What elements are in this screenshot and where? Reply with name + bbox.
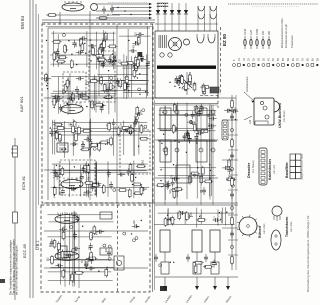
svg-text:1W: 1W [261, 31, 265, 35]
svg-text:0,25: 0,25 [249, 29, 253, 35]
svg-text:Kondensatoren in pF: Kondensatoren in pF [284, 24, 288, 48]
svg-text:0,5W: 0,5W [255, 28, 259, 35]
svg-text:1M: 1M [170, 190, 172, 193]
svg-text:U B 1: U B 1 [36, 241, 40, 251]
svg-text:von hinten: von hinten [283, 110, 286, 122]
svg-text:Toleranzen: Toleranzen [290, 35, 294, 48]
svg-text:von unten: von unten [263, 223, 266, 234]
svg-text:Beschaltung des Vierwindungsko: Beschaltung des Vierwindungskopplers „W5… [306, 215, 310, 292]
svg-text:ECC 85: ECC 85 [22, 243, 27, 258]
svg-text:Röhren: Röhren [258, 226, 262, 238]
svg-text:Widerstandswerte in Ohm: Widerstandswerte in Ohm [280, 18, 284, 48]
svg-text:Bandfilter: Bandfilter [285, 161, 289, 178]
svg-text:UKW-Buchsen: UKW-Buchsen [278, 103, 282, 128]
svg-text:Allegro 62 GF/GT Ausf.: Allegro 62 GF/GT Ausf. [300, 153, 304, 180]
svg-text:von unten: von unten [290, 221, 293, 232]
svg-text:EM 84: EM 84 [20, 15, 25, 29]
svg-text:Decoder: Decoder [247, 162, 251, 178]
svg-text:Transistoren: Transistoren [285, 217, 289, 237]
svg-text:AM: AM [248, 120, 252, 124]
svg-text:von vorn: von vorn [273, 164, 276, 174]
svg-text:(nur Stereo): (nur Stereo) [252, 160, 255, 173]
svg-text:KAF 901: KAF 901 [19, 96, 24, 112]
svg-text:1M: 1M [149, 61, 151, 64]
svg-text:1M: 1M [85, 93, 87, 96]
svg-text:EZ 80: EZ 80 [222, 33, 227, 46]
svg-text:2W: 2W [267, 31, 271, 35]
svg-text:Ferritantenne: Ferritantenne [245, 76, 249, 92]
svg-text:ECH 81: ECH 81 [21, 175, 26, 190]
svg-text:Kabelstecker: Kabelstecker [268, 158, 272, 180]
svg-text:wir uns im Interesse der Entwi: wir uns im Interesse der Entwicklung vor… [14, 244, 18, 295]
svg-text:0,1W: 0,1W [243, 28, 247, 35]
svg-text:1M: 1M [195, 83, 197, 86]
svg-text:1M: 1M [131, 125, 133, 128]
svg-text:1M: 1M [201, 190, 203, 193]
